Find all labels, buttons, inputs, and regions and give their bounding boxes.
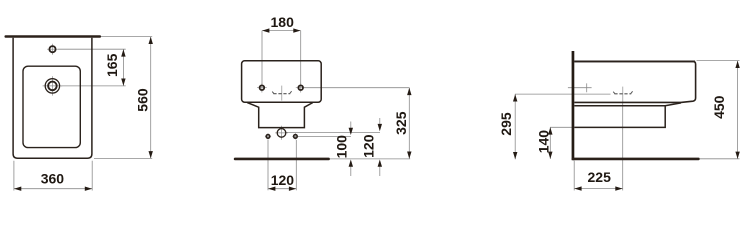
svg-text:120: 120 xyxy=(361,134,377,158)
dim 100 upper tail xyxy=(350,122,352,129)
bottom view: 180 left extension to hole xyxy=(261,31,263,85)
dim 165 arrows xyxy=(121,49,125,86)
front view: faucet hole centerlines xyxy=(47,44,58,55)
dim 450 arrows xyxy=(735,61,739,159)
front view: 360 right extension line xyxy=(91,161,93,191)
front view: body outline xyxy=(13,38,92,159)
bottom view: left supply hole xyxy=(266,135,270,139)
bottom view: tap centerline vertical xyxy=(281,86,283,101)
svg-text:325: 325 xyxy=(393,111,409,135)
bottom view: right fixing hole centerlines xyxy=(296,83,306,93)
side view: 450 top leader xyxy=(697,60,740,62)
side view: leader from drain box bottom to 140 dim xyxy=(550,126,574,128)
bottom view: body outline xyxy=(242,61,322,102)
bottom view: wall line thin extension right xyxy=(330,158,410,160)
dim 180 line xyxy=(262,30,301,32)
side view: tap centerline vertical xyxy=(622,87,624,102)
dim 120 mid upper tail xyxy=(379,118,381,124)
front view: drain inner circle xyxy=(48,82,57,91)
bottom view: tap dashed centerline xyxy=(273,93,290,95)
bottom view: drain hole xyxy=(277,129,286,138)
svg-text:295: 295 xyxy=(498,112,514,136)
bottom view: left fixing hole xyxy=(260,85,265,90)
front view: 560 bottom extension line xyxy=(94,157,152,159)
front view: 360 left extension line xyxy=(13,161,15,191)
side view: fixing hole cross xyxy=(568,83,592,92)
dim 295 arrows xyxy=(513,94,517,159)
svg-text:225: 225 xyxy=(588,169,612,185)
bottom view: right fixing hole xyxy=(298,85,303,90)
side view: 225 left extension line xyxy=(573,161,575,191)
dim 100 lower tail xyxy=(350,166,352,176)
bottom view: right supply hole xyxy=(294,135,298,139)
svg-text:120: 120 xyxy=(271,172,295,188)
front view: top rim bar xyxy=(5,35,102,38)
svg-text:180: 180 xyxy=(271,14,295,30)
dim 360 line xyxy=(14,188,92,190)
dim 140 line xyxy=(549,127,551,159)
side view: wall thick line xyxy=(572,51,575,160)
dim 120 bottom line xyxy=(268,188,296,190)
front view: inner basin rect xyxy=(23,66,80,147)
bottom view: leader from right fixing hole to 325 dim xyxy=(304,87,410,89)
side view: bottom thick line xyxy=(572,158,700,161)
dim 120 mid upper arrow xyxy=(378,124,382,131)
dim 325 arrows xyxy=(407,88,411,159)
dim 325 line xyxy=(408,88,410,159)
svg-text:100: 100 xyxy=(334,135,350,159)
bottom view: drain housing outline xyxy=(247,103,313,128)
side view: drain box top edge with chamfer xyxy=(574,103,681,106)
bottom view: 120 right extension line xyxy=(295,140,297,191)
bottom view: left fixing hole centerlines xyxy=(257,83,267,93)
dim 120 mid lower tail xyxy=(379,166,381,176)
svg-text:360: 360 xyxy=(41,171,65,187)
dim 360 arrows xyxy=(14,187,92,191)
bottom view: left supply hole ticks xyxy=(265,133,271,139)
bottom view: drain centerlines xyxy=(275,126,288,140)
dim 180 arrows xyxy=(262,28,301,32)
dim 560 line xyxy=(150,37,152,159)
dim 165 line xyxy=(122,49,124,86)
bottom view: supply leader to 100 dim xyxy=(298,135,351,137)
dim 225 line xyxy=(574,188,622,190)
side view: tap dashed centerline xyxy=(614,93,631,95)
dim 120 mid lower arrow xyxy=(378,160,382,167)
front view: leader from drain to 165 dim xyxy=(61,85,126,87)
side view: 450 bottom thin extension xyxy=(700,158,740,160)
side view: 225 right extension / tap centerline xyxy=(622,102,624,191)
side view: drain box right and bottom edges xyxy=(574,106,665,128)
dim 140 arrows xyxy=(548,127,552,159)
bottom view: 120 left extension line xyxy=(267,140,269,191)
svg-text:450: 450 xyxy=(711,95,727,119)
dim 100 upper arrow xyxy=(349,128,353,135)
svg-text:165: 165 xyxy=(104,53,120,77)
front view: 560 top extension line xyxy=(101,36,152,38)
svg-text:560: 560 xyxy=(135,88,151,112)
side view: basin profile outline xyxy=(574,61,695,102)
bottom view: drain leader to 120 dim xyxy=(286,131,380,133)
front view: faucet hole circle xyxy=(49,46,55,52)
bottom view: right supply hole ticks xyxy=(292,133,298,139)
side view: leader from tap level to 295 dim xyxy=(515,93,611,95)
bottom view: wall thick line xyxy=(234,158,330,161)
front view: drain outer circle xyxy=(45,79,59,93)
dim 450 line xyxy=(737,61,739,159)
bottom view: tap dash hooks xyxy=(272,91,291,93)
dim 100 lower arrow xyxy=(349,160,353,167)
bottom view: 180 right extension to hole xyxy=(300,31,302,85)
side view: basin top deck thick edge xyxy=(574,60,695,62)
dim 295 line xyxy=(514,94,516,159)
side view: tap dash hooks xyxy=(613,91,632,93)
svg-text:140: 140 xyxy=(536,130,552,154)
dim 120 bottom arrows xyxy=(268,187,296,191)
dim 225 arrows xyxy=(574,186,622,190)
front view: drain centerlines xyxy=(43,76,63,95)
front view: leader from faucet hole to 165 dim xyxy=(58,48,126,50)
dim 560 arrows xyxy=(149,37,153,159)
